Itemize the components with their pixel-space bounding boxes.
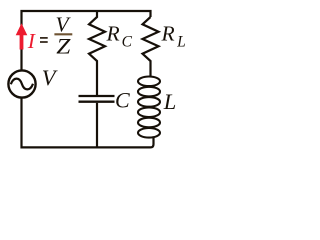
svg-text:Z: Z	[56, 35, 71, 59]
svg-text:V: V	[42, 65, 58, 90]
inductor L coil	[138, 77, 160, 138]
resistor RL zigzag	[143, 17, 159, 77]
svg-text:L: L	[163, 89, 177, 114]
svg-text:RL: RL	[161, 22, 186, 51]
wire top and left (node from source + to top rail)	[22, 11, 151, 70]
AC source V (sine generator)	[8, 70, 35, 97]
svg-text:RC: RC	[106, 22, 133, 51]
resistor RC zigzag	[89, 11, 105, 95]
current arrow I (red)	[16, 23, 28, 49]
svg-text:I: I	[27, 29, 36, 53]
capacitor C plates	[79, 96, 115, 147]
svg-text:C: C	[115, 88, 130, 113]
fraction bar	[54, 33, 72, 35]
wire bottom rail	[22, 99, 154, 148]
equals sign	[40, 38, 48, 42]
svg-text:V: V	[56, 13, 72, 37]
